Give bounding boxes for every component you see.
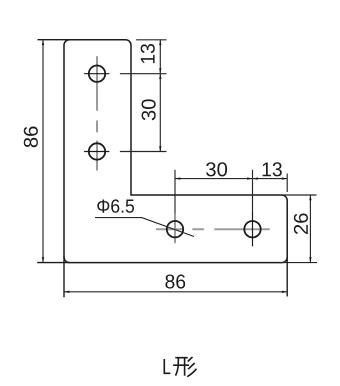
dimension 86 left: arrows [42, 40, 44, 263]
label diameter 6.5: text [97, 199, 134, 212]
centerline vertical (h-leg hole A) [174, 214, 176, 244]
center mark H2 [84, 151, 109, 153]
dimension 26 right: arrows [309, 195, 311, 263]
dimension 30 top-right: arrows [159, 74, 161, 152]
dimension 13 top-right: text [141, 44, 155, 63]
dimension 86 bottom: dim line [64, 291, 287, 293]
dimension 30 h: text [206, 162, 227, 176]
dimension 26 right: dim line [309, 195, 311, 263]
center mark H1 [84, 73, 109, 75]
dimension 13 top-right: arrows [159, 40, 161, 74]
dimension 30 h: arrows [175, 177, 253, 179]
caption L-shape: hanzi xing right component [187, 357, 196, 377]
centerline vertical (v-leg holes) [96, 56, 98, 170]
centerline horizontal (h-leg holes) [156, 228, 270, 230]
dimension 26 right: text [294, 213, 308, 234]
hole H2 (vertical leg bottom) [89, 143, 105, 159]
dimension 30/13 above h-leg: extension lines [175, 170, 287, 214]
dimension 86 bottom: text [165, 274, 185, 288]
dimension 30 top-right: text [142, 99, 156, 120]
caption L-shape: hanzi xing left component [173, 358, 189, 376]
dimension 26 right: extension lines [281, 195, 317, 263]
dimension 86 bottom: arrows [64, 291, 287, 293]
dimension 86 bottom: extension lines [64, 256, 287, 297]
center mark H4 vertical [252, 212, 254, 246]
dimension 86 left: dim line [42, 40, 44, 263]
dimension 13/30 top-right: dim line [159, 40, 161, 152]
dimension 13 h: text [263, 162, 282, 176]
dimension 13 top-right: extension lines [120, 40, 167, 152]
hole H4 (horizontal leg right) [244, 221, 260, 237]
label diameter 6.5: leader line [95, 218, 194, 237]
L-bracket outline [64, 40, 287, 263]
dimension 13 h: arrows [253, 177, 288, 179]
dimension 86 left: text [24, 127, 38, 148]
dimension 86 left: extension lines [37, 40, 70, 263]
hole H1 (vertical leg top) [89, 66, 105, 82]
dimension 30/13 above h-leg: dim line [175, 178, 287, 180]
hole H3 (horizontal leg left) [167, 221, 183, 237]
caption L-shape: letter L [164, 359, 170, 373]
